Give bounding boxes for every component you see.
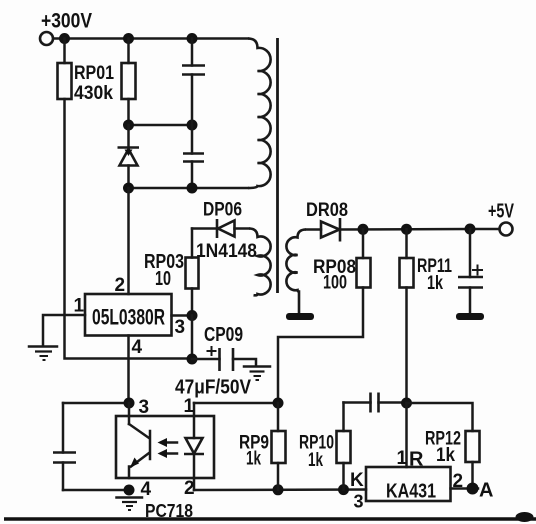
junction on rail at snubber R xyxy=(123,33,134,44)
svg-text:2: 2 xyxy=(184,478,195,499)
resistor RP11 xyxy=(405,229,408,258)
svg-text:+5V: +5V xyxy=(488,201,514,223)
junction opto pin4 xyxy=(124,485,135,496)
bottom border line xyxy=(4,517,536,520)
light arrows xyxy=(166,441,177,444)
wire +300V top rail xyxy=(54,37,249,40)
svg-text:100: 100 xyxy=(323,273,347,294)
svg-text:RP01: RP01 xyxy=(74,63,114,84)
svg-text:CP09: CP09 xyxy=(204,324,243,346)
wire pin2 to drain rail xyxy=(127,188,130,294)
junction rail RP11 xyxy=(401,224,412,235)
wire opto pin2 bottom rail xyxy=(194,488,366,491)
junction snubber mid left xyxy=(123,120,134,131)
junction opto pin3 xyxy=(124,398,135,409)
svg-text:4: 4 xyxy=(141,479,152,500)
svg-text:1k: 1k xyxy=(246,449,261,470)
junction pin3 node xyxy=(187,310,198,321)
svg-text:1: 1 xyxy=(74,296,85,317)
optocoupler U2 PC718 box xyxy=(116,416,214,478)
terminal +300V input xyxy=(40,32,53,45)
svg-text:1: 1 xyxy=(184,396,195,417)
svg-text:1k: 1k xyxy=(427,273,443,294)
junction on rail at RP01 xyxy=(59,33,70,44)
junction feedback node xyxy=(401,398,412,409)
svg-text:DR08: DR08 xyxy=(306,199,348,221)
wire pin2 to node A xyxy=(451,487,479,490)
transformer core xyxy=(276,38,279,293)
wire pin4 down to opto xyxy=(127,336,130,404)
junction snubber mid right xyxy=(187,120,198,131)
svg-text:1k: 1k xyxy=(436,445,455,466)
transformer T1 primary winding xyxy=(248,39,271,189)
svg-text:K: K xyxy=(350,470,364,491)
svg-text:10: 10 xyxy=(155,268,171,290)
transformer T1 aux winding xyxy=(249,229,271,296)
svg-text:4: 4 xyxy=(132,337,143,358)
junction node A xyxy=(467,483,479,495)
transformer T1 secondary winding xyxy=(286,230,306,314)
transistor phototransistor xyxy=(129,424,150,478)
junction drain right xyxy=(187,183,198,194)
ground opto pin4 earth xyxy=(117,496,143,499)
ground CP09 earth xyxy=(244,365,270,368)
svg-text:1: 1 xyxy=(397,448,408,469)
resistor RP9 xyxy=(277,403,280,431)
wire snubber mid xyxy=(129,124,193,127)
svg-text:1N4148: 1N4148 xyxy=(196,240,257,262)
wire drain rail xyxy=(129,187,249,190)
capacitor feedback xyxy=(344,401,371,404)
svg-text:+300V: +300V xyxy=(41,10,92,33)
svg-text:3: 3 xyxy=(139,397,150,418)
pin 3 stub xyxy=(128,403,131,424)
junction RP10 bottom xyxy=(338,484,349,495)
wire feedback node to RP12 top xyxy=(407,403,473,431)
wire cap bottom to opto pin4 xyxy=(63,489,129,492)
junction rail RP08 xyxy=(358,224,369,235)
svg-text:1k: 1k xyxy=(308,450,323,471)
terminal +5V output xyxy=(500,223,513,236)
junction RP9 bottom xyxy=(273,484,284,495)
op-amp U1 05L0380R box xyxy=(85,294,172,336)
wire opto pin1 to RP9 node xyxy=(194,402,278,405)
wire pin3 node down to CP09 node xyxy=(191,316,194,360)
resistor RP08 xyxy=(362,229,365,258)
wire +5V rail xyxy=(340,228,499,231)
resistor RP03 xyxy=(191,229,194,258)
junction CP09 node xyxy=(187,354,198,365)
capacitor snubber top xyxy=(191,39,194,66)
capacitor snubber bottom xyxy=(191,125,194,154)
svg-text:3: 3 xyxy=(354,492,364,512)
junction drain left xyxy=(123,183,134,194)
bottom border blob xyxy=(516,512,534,522)
resistor RP01 xyxy=(63,39,66,64)
svg-text:A: A xyxy=(479,480,493,502)
resistor snubber (unlabeled) xyxy=(127,39,130,64)
LED emitter diode xyxy=(193,403,196,438)
wire cap top to opto pin3 xyxy=(63,402,129,405)
junction on rail at snubber C xyxy=(187,33,198,44)
wire pin3 to RP03 node xyxy=(172,314,193,317)
capacitor output electrolytic xyxy=(469,229,472,277)
diode snubber clamp xyxy=(127,125,130,148)
svg-text:3: 3 xyxy=(175,317,186,338)
wire feedback node to R pin xyxy=(405,403,408,467)
svg-text:R: R xyxy=(409,449,424,471)
ground secondary chassis bar xyxy=(286,313,314,320)
resistor RP10 xyxy=(342,403,345,432)
junction rail cap xyxy=(465,224,476,235)
wire RP01 bottom long run down xyxy=(65,99,193,359)
svg-text:05L0380R: 05L0380R xyxy=(92,305,165,330)
svg-text:2: 2 xyxy=(115,275,126,296)
ground pin1 earth xyxy=(29,345,57,348)
ground output chassis bar xyxy=(456,313,484,320)
junction RP9 top xyxy=(273,398,284,409)
diode DP06 xyxy=(192,227,217,230)
resistor RP12 xyxy=(466,431,480,462)
svg-text:DP06: DP06 xyxy=(203,200,242,221)
svg-text:KA431: KA431 xyxy=(386,480,436,503)
wire pin1 to ground xyxy=(43,315,85,345)
shunt regulator U3 KA431 box xyxy=(366,467,451,501)
capacitor opto primary side xyxy=(62,403,65,453)
svg-text:430k: 430k xyxy=(74,83,113,104)
